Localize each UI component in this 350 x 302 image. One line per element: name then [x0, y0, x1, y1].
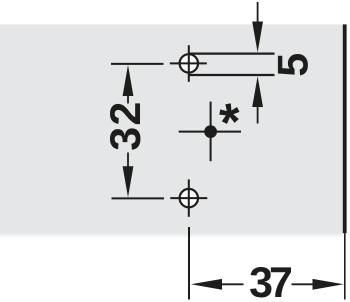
- slot line bottom: [189, 74, 275, 76]
- panel front edge (thick line): [343, 24, 347, 233]
- panel (cabinet side, light gray): [0, 24, 347, 233]
- svg-text:5: 5: [270, 53, 318, 77]
- dimension 5 bottom arrow: [252, 76, 263, 123]
- dimension 32 bottom extension line: [112, 197, 165, 199]
- dimension 37 left arrow: [191, 279, 244, 290]
- dimension 37 left extension line: [188, 227, 190, 300]
- hole H1 (top system hole): [170, 45, 207, 82]
- slot line top: [189, 52, 275, 54]
- dimension 32 bottom arrow: [123, 153, 134, 198]
- svg-text:37: 37: [249, 259, 292, 302]
- svg-text:32: 32: [102, 100, 150, 150]
- dimension 37 right arrow: [292, 279, 344, 290]
- hole H2 (bottom system hole): [170, 179, 207, 216]
- dimension 32 top arrow: [123, 65, 134, 104]
- dimension 5 top arrow: [252, 2, 263, 53]
- dimension 37 right extension line: [344, 233, 346, 299]
- panel bottom fade: [0, 233, 343, 238]
- dot P1 (reference point): [179, 102, 241, 162]
- dimension 32 top extension line: [111, 63, 164, 65]
